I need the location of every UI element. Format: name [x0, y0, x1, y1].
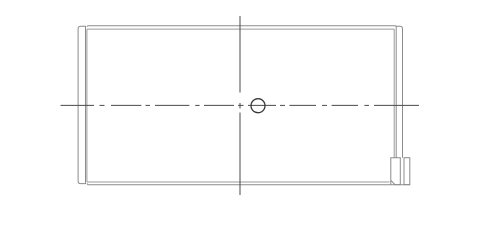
shell top outer edge with crush-relief steps	[87, 25, 396, 28]
right parting-face tab	[396, 26, 402, 157]
shell bottom outer edge	[87, 183, 391, 184]
bottom outer edge under tang	[391, 184, 410, 186]
locating tang outer box	[404, 158, 410, 185]
vertical centerline	[239, 16, 241, 195]
shell wall inner line bottom	[87, 181, 390, 183]
locating tang inner box with chamfer	[391, 158, 401, 185]
shell wall inner line right	[393, 29, 395, 158]
shell wall inner line top	[87, 28, 394, 30]
oil hole	[251, 99, 265, 113]
shell right outer wall	[395, 26, 397, 157]
shell wall inner line left	[86, 29, 88, 182]
left parting-face tab	[78, 26, 85, 183]
horizontal centerline	[61, 104, 420, 106]
